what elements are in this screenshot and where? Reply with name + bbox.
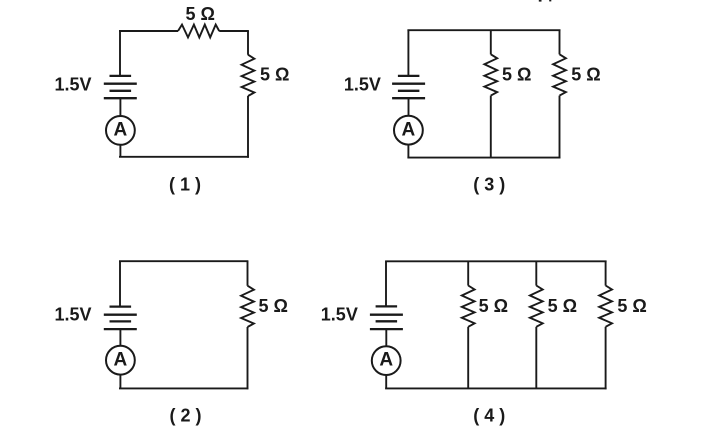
ammeter A2 (circuit 3) bbox=[394, 116, 423, 145]
svg-text:( 3 ): ( 3 ) bbox=[473, 175, 505, 195]
wire: circuit 1 right lower segment bbox=[247, 96, 249, 158]
cropped text remnant mark 2 (top edge) bbox=[549, 0, 551, 1]
wire: circuit 3 middle branch upper bbox=[490, 30, 492, 54]
svg-text:5 Ω: 5 Ω bbox=[259, 296, 288, 316]
svg-text:A: A bbox=[114, 120, 128, 141]
ammeter A3 (circuit 2) bbox=[106, 346, 135, 375]
wire: circuit 2 top segment bbox=[119, 260, 248, 262]
svg-text:1.5V: 1.5V bbox=[321, 305, 358, 325]
wire: circuit 4 top segment bbox=[385, 260, 606, 262]
ammeter A4 (circuit 4) bbox=[372, 346, 401, 375]
wire: circuit 2 bottom segment bbox=[119, 387, 248, 389]
wire: circuit 3 right upper segment bbox=[559, 30, 561, 54]
wire: circuit 2 battery to ammeter bbox=[119, 329, 121, 346]
cropped text remnant mark 1 (top edge) bbox=[539, 0, 542, 2]
svg-text:( 1 ): ( 1 ) bbox=[169, 175, 201, 195]
svg-text:5 Ω: 5 Ω bbox=[548, 296, 577, 316]
wire: circuit 1 top-right segment bbox=[219, 30, 249, 32]
battery B2 1.5V (circuit 3) bbox=[392, 76, 425, 98]
resistor R3 5ohm (circuit 3 middle branch) bbox=[484, 54, 497, 95]
battery B3 1.5V (circuit 2) bbox=[104, 307, 137, 330]
wire: circuit 1 left top segment (to battery) bbox=[119, 31, 121, 76]
resistor R6 5ohm (circuit 4 branch 1) bbox=[462, 286, 475, 327]
wire: circuit 4 branch 2 lower bbox=[535, 327, 537, 389]
resistor R5 5ohm (circuit 2 right) bbox=[241, 286, 254, 327]
battery B1 1.5V (circuit 1) bbox=[104, 76, 137, 98]
svg-text:5 Ω: 5 Ω bbox=[260, 64, 289, 84]
svg-text:( 2 ): ( 2 ) bbox=[169, 405, 201, 425]
wire: circuit 1 right upper segment bbox=[247, 31, 249, 55]
wire: circuit 3 top segment bbox=[407, 29, 560, 31]
wire: circuit 3 middle branch lower bbox=[490, 96, 492, 158]
ammeter A1 (circuit 1) bbox=[106, 116, 135, 145]
svg-text:1.5V: 1.5V bbox=[344, 74, 381, 94]
svg-text:A: A bbox=[379, 350, 393, 371]
svg-text:A: A bbox=[114, 349, 128, 370]
wire: circuit 4 branch 2 upper bbox=[535, 261, 537, 285]
wire: circuit 2 right lower segment bbox=[247, 327, 249, 389]
svg-text:1.5V: 1.5V bbox=[55, 305, 92, 325]
wire: circuit 4 branch 1 lower bbox=[467, 327, 469, 389]
svg-text:5 Ω: 5 Ω bbox=[502, 64, 531, 84]
svg-text:5 Ω: 5 Ω bbox=[617, 296, 646, 316]
wire: circuit 1 battery to ammeter bbox=[119, 98, 121, 116]
wire: circuit 4 left top segment (to battery) bbox=[385, 261, 387, 306]
wire: circuit 2 ammeter to bottom bbox=[119, 375, 121, 389]
wire: circuit 3 right lower segment bbox=[559, 96, 561, 159]
wire: circuit 4 ammeter to bottom bbox=[385, 375, 387, 388]
wire: circuit 2 left top segment (to battery) bbox=[119, 261, 121, 306]
resistor R2 5ohm (circuit 1 right) bbox=[242, 55, 255, 96]
wire: circuit 1 bottom segment bbox=[119, 156, 249, 158]
wire: circuit 4 right lower segment bbox=[605, 327, 607, 390]
wire: circuit 1 top-left segment bbox=[119, 30, 178, 32]
wire: circuit 4 right upper segment bbox=[605, 261, 607, 285]
resistor R8 5ohm (circuit 4 right) bbox=[599, 286, 612, 327]
resistor R4 5ohm (circuit 3 right) bbox=[553, 54, 566, 95]
svg-text:A: A bbox=[402, 119, 416, 140]
wire: circuit 3 left top segment (to battery) bbox=[407, 30, 409, 76]
wire: circuit 1 ammeter to bottom bbox=[119, 145, 121, 157]
resistor R7 5ohm (circuit 4 branch 2) bbox=[530, 286, 543, 327]
wire: circuit 3 bottom segment bbox=[407, 157, 560, 159]
svg-text:5 Ω: 5 Ω bbox=[186, 4, 215, 24]
wire: circuit 3 battery to ammeter bbox=[408, 98, 410, 116]
wire: circuit 3 ammeter to bottom bbox=[407, 145, 409, 158]
svg-text:( 4 ): ( 4 ) bbox=[473, 405, 505, 425]
battery B4 1.5V (circuit 4) bbox=[370, 306, 403, 329]
resistor R1 5ohm (circuit 1 top) bbox=[178, 25, 219, 38]
svg-text:1.5V: 1.5V bbox=[55, 74, 92, 94]
wire: circuit 4 battery to ammeter bbox=[385, 329, 387, 346]
wire: circuit 2 right upper segment bbox=[247, 261, 249, 286]
wire: circuit 4 bottom segment bbox=[385, 387, 606, 389]
wire: circuit 4 branch 1 upper bbox=[467, 261, 469, 285]
svg-text:5 Ω: 5 Ω bbox=[479, 296, 508, 316]
svg-text:5 Ω: 5 Ω bbox=[571, 64, 600, 84]
